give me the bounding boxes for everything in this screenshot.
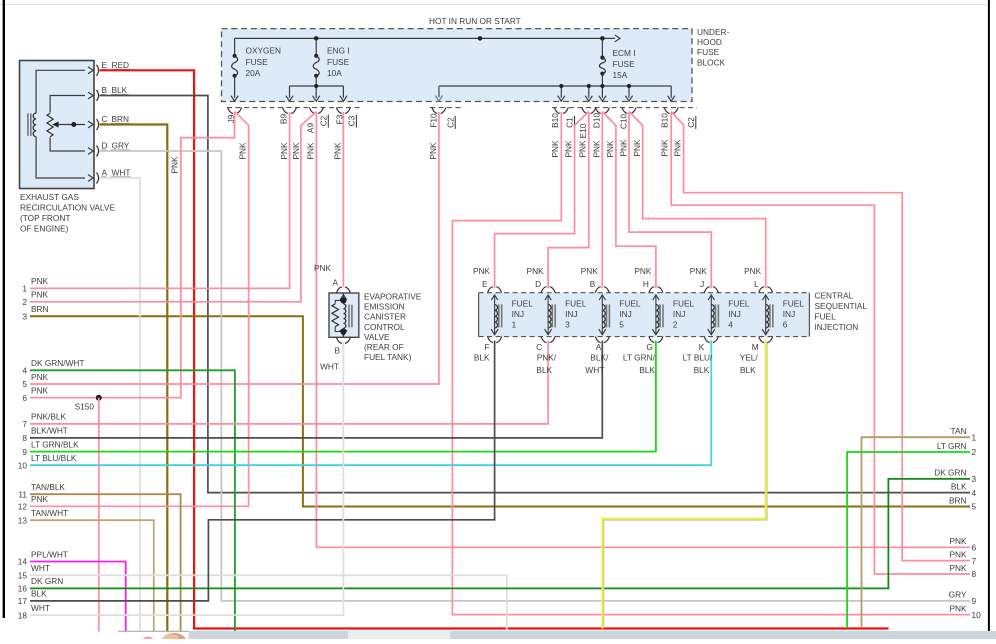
svg-text:PNK: PNK — [428, 142, 438, 160]
svg-text:2: 2 — [972, 447, 977, 457]
svg-text:F: F — [485, 342, 490, 352]
svg-text:VALVE: VALVE — [364, 332, 390, 342]
wire 10 LT BLU/BLK to injector pin K — [30, 341, 711, 466]
svg-text:PNK: PNK — [591, 140, 601, 158]
svg-text:8: 8 — [972, 569, 977, 579]
svg-text:3: 3 — [565, 320, 570, 330]
svg-text:INJ: INJ — [565, 309, 577, 319]
svg-text:LT GRN/: LT GRN/ — [623, 353, 656, 363]
EVAP connector A — [336, 287, 350, 293]
svg-text:(TOP FRONT: (TOP FRONT — [20, 213, 70, 223]
wire 11 TAN/BLK — [30, 494, 181, 631]
fuel injector block box — [479, 293, 810, 337]
svg-text:PNK: PNK — [170, 156, 180, 174]
wire EGR A WHT — [100, 178, 140, 632]
fuse ECM I FUSE 15A — [601, 38, 603, 57]
fuel injector 5 — [595, 287, 609, 293]
svg-text:INJ: INJ — [783, 309, 795, 319]
svg-text:A: A — [596, 342, 602, 352]
wire 3 BRN to right wire 5 — [30, 316, 970, 506]
svg-text:WHT: WHT — [585, 365, 604, 375]
svg-text:11: 11 — [18, 489, 27, 499]
EGR potentiometer resistor — [47, 113, 53, 137]
svg-text:BLK: BLK — [112, 85, 128, 95]
node S150 — [96, 395, 102, 401]
svg-text:BRN: BRN — [949, 495, 967, 505]
svg-text:EXHAUST GAS: EXHAUST GAS — [20, 192, 79, 202]
svg-text:FUEL: FUEL — [512, 299, 534, 309]
svg-text:PNK: PNK — [605, 140, 615, 158]
svg-text:FUEL: FUEL — [783, 299, 805, 309]
page top hairline — [0, 4, 990, 6]
svg-text:B: B — [590, 279, 596, 289]
svg-text:OF ENGINE): OF ENGINE) — [20, 224, 69, 234]
svg-text:SEQUENTIAL: SEQUENTIAL — [815, 301, 868, 311]
svg-text:5: 5 — [22, 379, 27, 389]
svg-text:BLK: BLK — [639, 365, 655, 375]
node engbar-center — [314, 84, 318, 88]
wire B9 PNK to left wire 1 — [30, 112, 290, 288]
svg-text:2: 2 — [673, 320, 678, 330]
svg-text:PNK: PNK — [660, 139, 670, 157]
svg-text:C1: C1 — [565, 117, 575, 128]
svg-text:4: 4 — [972, 488, 977, 498]
svg-text:PNK: PNK — [550, 140, 560, 158]
node ecmbar junctions — [559, 84, 563, 88]
svg-text:4: 4 — [728, 320, 733, 330]
svg-text:3: 3 — [972, 474, 977, 484]
svg-text:A9: A9 — [305, 123, 315, 134]
wire E10 PNK to injector pin E — [495, 112, 589, 289]
svg-text:LT GRN/BLK: LT GRN/BLK — [31, 439, 79, 449]
svg-text:15A: 15A — [613, 70, 628, 80]
svg-text:C2: C2 — [686, 117, 696, 128]
svg-text:K: K — [699, 342, 705, 352]
svg-text:PNK: PNK — [949, 536, 967, 546]
svg-text:PNK: PNK — [314, 263, 332, 273]
page right border — [988, 0, 990, 631]
svg-text:GRY: GRY — [949, 590, 967, 600]
svg-text:HOOD: HOOD — [697, 37, 722, 47]
wire 4 DK GRN/WHT — [30, 370, 235, 631]
svg-text:20A: 20A — [246, 68, 261, 78]
svg-text:1: 1 — [972, 432, 977, 442]
svg-text:PNK: PNK — [31, 494, 49, 504]
svg-text:18: 18 — [18, 610, 28, 620]
svg-text:OXYGEN: OXYGEN — [246, 46, 282, 56]
svg-text:5: 5 — [972, 502, 977, 512]
fuel injector 4 — [704, 287, 718, 293]
svg-text:FUEL: FUEL — [565, 299, 587, 309]
wire 9 LT GRN/BLK to injector pin G — [30, 341, 656, 452]
svg-text:B10: B10 — [660, 113, 670, 128]
svg-text:PNK: PNK — [632, 139, 642, 157]
wire C10 PNK to injector pin J — [629, 112, 711, 288]
connector pin at x=316.4 — [309, 107, 323, 113]
svg-text:BLK/WHT: BLK/WHT — [31, 426, 68, 436]
svg-text:9: 9 — [972, 596, 977, 606]
svg-text:BLOCK: BLOCK — [697, 57, 726, 67]
svg-text:CONTROL: CONTROL — [364, 322, 405, 332]
EGR pin D arrow — [88, 148, 93, 155]
svg-text:C: C — [536, 342, 542, 352]
svg-text:BRN: BRN — [112, 114, 130, 124]
svg-text:2: 2 — [22, 297, 27, 307]
svg-text:H: H — [643, 279, 649, 289]
fuse block connector C2b row dashed — [430, 107, 463, 109]
wire B10 PNK to right wire 7 — [671, 112, 970, 561]
svg-text:ECM I: ECM I — [613, 48, 636, 58]
svg-text:FUEL: FUEL — [673, 299, 695, 309]
wire injector M YEL/BLK — [602, 341, 765, 629]
fuel injector 1 — [488, 287, 502, 293]
svg-text:17: 17 — [18, 596, 28, 606]
svg-text:8: 8 — [22, 433, 27, 443]
svg-text:PNK: PNK — [332, 142, 342, 160]
svg-text:E10: E10 — [578, 123, 588, 138]
svg-text:PNK: PNK — [744, 266, 762, 276]
svg-text:FUSE: FUSE — [327, 57, 350, 67]
svg-text:PNK/BLK: PNK/BLK — [31, 412, 67, 422]
svg-text:PNK: PNK — [31, 290, 49, 300]
svg-text:BLK: BLK — [536, 365, 552, 375]
connector pin at x=289.5 — [283, 107, 297, 113]
EGR coil — [33, 113, 36, 137]
wire D10 PNK to injector pin H — [602, 112, 656, 289]
svg-text:13: 13 — [18, 515, 28, 525]
EVAP connector B — [336, 337, 350, 343]
svg-text:PNK: PNK — [31, 386, 49, 396]
wire S150 branch down PNK — [98, 398, 100, 632]
svg-text:1: 1 — [512, 320, 517, 330]
svg-text:PNK: PNK — [306, 142, 316, 160]
EGR internal wiring — [36, 70, 85, 113]
svg-text:FUEL: FUEL — [619, 299, 641, 309]
wire 17 BLK to injector pin F — [30, 341, 495, 601]
EGR pin A arrow — [88, 175, 93, 182]
wire J9 PNK to left wire 12 — [30, 112, 249, 507]
svg-text:E: E — [102, 60, 108, 70]
svg-text:CANISTER: CANISTER — [364, 312, 406, 322]
right wire 2 LT GRN — [847, 452, 970, 628]
wire 18 WHT to EVAP pin B — [30, 342, 343, 616]
node EVAP bottom — [340, 328, 346, 334]
svg-text:10: 10 — [972, 610, 982, 620]
svg-text:RED: RED — [112, 60, 130, 70]
svg-text:B: B — [102, 85, 108, 95]
svg-text:BLK: BLK — [474, 353, 490, 363]
svg-text:TAN/WHT: TAN/WHT — [31, 508, 68, 518]
node bus-feed — [478, 36, 483, 41]
svg-text:BLK: BLK — [694, 365, 710, 375]
EVAP internal — [342, 293, 344, 304]
svg-text:LT BLU/BLK: LT BLU/BLK — [31, 453, 77, 463]
svg-text:6: 6 — [22, 393, 27, 403]
svg-text:BLK: BLK — [31, 589, 47, 599]
svg-text:M: M — [752, 342, 759, 352]
svg-text:DK GRN: DK GRN — [31, 576, 63, 586]
wire 16 DK GRN to right wire 3 — [30, 479, 970, 589]
wire F3 PNK to EVAP pin A — [342, 112, 344, 287]
svg-text:L: L — [754, 279, 759, 289]
page left border — [3, 0, 5, 618]
svg-text:E: E — [482, 279, 488, 289]
svg-text:PNK: PNK — [564, 140, 574, 158]
svg-text:15: 15 — [18, 571, 28, 581]
node EGR wiper junction — [71, 122, 76, 127]
svg-text:C2: C2 — [318, 115, 328, 126]
ecm fuse distribution bar — [439, 85, 671, 87]
svg-text:B10: B10 — [550, 113, 560, 128]
svg-text:D: D — [535, 279, 541, 289]
svg-text:12: 12 — [18, 502, 28, 512]
svg-text:PNK: PNK — [31, 372, 49, 382]
connector pin at x=343.4 — [336, 107, 350, 113]
EGR valve box — [20, 61, 95, 189]
svg-text:PNK: PNK — [578, 140, 588, 158]
svg-text:C3: C3 — [347, 115, 357, 126]
svg-text:PNK: PNK — [473, 266, 491, 276]
wire B10 PNK to right wire 10 — [452, 112, 970, 615]
svg-text:WHT: WHT — [112, 167, 131, 177]
svg-text:EVAPORATIVE: EVAPORATIVE — [364, 292, 422, 302]
wire J9 PNK to S150 (left wire 6) — [30, 112, 235, 398]
svg-text:5: 5 — [619, 320, 624, 330]
svg-text:10: 10 — [18, 460, 28, 470]
svg-text:7: 7 — [22, 419, 27, 429]
svg-text:ENG I: ENG I — [327, 46, 350, 56]
svg-text:D10: D10 — [591, 113, 601, 129]
svg-text:BRN: BRN — [31, 304, 49, 314]
fuel injector 6 — [759, 287, 773, 293]
svg-text:TAN/BLK: TAN/BLK — [31, 482, 65, 492]
svg-text:7: 7 — [972, 556, 977, 566]
svg-text:RECIRCULATION VALVE: RECIRCULATION VALVE — [20, 203, 115, 213]
svg-text:3: 3 — [22, 311, 27, 321]
connector pin at x=629 — [622, 107, 636, 113]
svg-text:B: B — [334, 346, 340, 356]
svg-text:6: 6 — [972, 543, 977, 553]
svg-text:J: J — [700, 279, 704, 289]
svg-text:GRY: GRY — [112, 141, 130, 151]
svg-text:C10: C10 — [618, 114, 628, 130]
svg-text:INJ: INJ — [728, 309, 740, 319]
bottom photo thumbnail — [143, 637, 154, 644]
wire D10 PNK to injector pin B — [601, 112, 603, 288]
svg-text:CENTRAL: CENTRAL — [815, 291, 854, 301]
wire 14 PPL/WHT — [30, 562, 126, 632]
svg-text:PNK: PNK — [31, 276, 49, 286]
wire B10 PNK to right wire 8 — [671, 112, 970, 574]
svg-text:UNDER-: UNDER- — [697, 27, 730, 37]
EGR pin C arrow — [88, 121, 93, 128]
svg-text:A: A — [332, 278, 338, 288]
connector pin at x=602.4 — [595, 107, 609, 113]
connector pin at x=561.3 — [554, 107, 568, 113]
connector pin at x=234.6 — [228, 107, 242, 113]
wire EGR E RED — [100, 70, 889, 628]
svg-text:INJ: INJ — [673, 309, 685, 319]
wire EGR B BLK to right wire 4 — [100, 96, 971, 493]
svg-text:1: 1 — [22, 284, 27, 294]
svg-text:HOT IN RUN OR START: HOT IN RUN OR START — [429, 16, 521, 26]
wire 15 WHT — [30, 575, 507, 631]
svg-text:INJECTION: INJECTION — [815, 322, 859, 332]
wire EGR D GRY to right wire 9 — [100, 151, 971, 601]
right wire 1 TAN — [862, 437, 971, 628]
EGR wiper wire — [56, 124, 85, 126]
bottom toolbar bar — [189, 631, 996, 639]
svg-text:TAN: TAN — [951, 426, 967, 436]
EVAP valve box — [329, 293, 359, 337]
svg-text:PNK: PNK — [279, 142, 289, 160]
svg-text:YEL/: YEL/ — [740, 353, 759, 363]
svg-text:A: A — [102, 167, 108, 177]
svg-text:D: D — [102, 141, 108, 151]
svg-text:WHT: WHT — [31, 563, 50, 573]
svg-text:PNK: PNK — [949, 549, 967, 559]
fuse OXYGEN FUSE 20A — [234, 38, 236, 55]
svg-text:PNK: PNK — [291, 142, 301, 160]
svg-text:PNK: PNK — [690, 266, 708, 276]
node bus-ecmfuse — [600, 36, 605, 41]
svg-text:4: 4 — [22, 366, 27, 376]
EGR pin B arrow — [88, 92, 93, 99]
wire injector M YEL/BLK shadow — [604, 342, 767, 629]
fuse block connector C2 row dashed — [227, 107, 361, 109]
svg-text:INJ: INJ — [619, 309, 631, 319]
underhood fuse block box — [222, 29, 693, 102]
connector pin at x=588.8 — [582, 107, 596, 113]
EGR pin E arrow — [88, 67, 93, 74]
svg-text:PNK: PNK — [949, 563, 967, 573]
svg-text:LT BLU/: LT BLU/ — [683, 353, 713, 363]
wire A9 PNK to right wire 6 — [316, 112, 970, 547]
svg-text:PPL/WHT: PPL/WHT — [31, 549, 68, 559]
svg-text:PNK: PNK — [673, 139, 683, 157]
svg-text:WHT: WHT — [31, 603, 50, 613]
svg-text:BLK/: BLK/ — [590, 353, 609, 363]
svg-text:FUEL: FUEL — [728, 299, 750, 309]
svg-text:C2: C2 — [445, 117, 455, 128]
wire C10 PNK to injector pin L — [629, 112, 766, 289]
eng fuse distribution bar — [290, 85, 344, 87]
wire 7 PNK/BLK to injector pin C — [30, 341, 548, 424]
svg-text:PNK: PNK — [619, 139, 629, 157]
svg-text:PNK/: PNK/ — [537, 353, 557, 363]
svg-text:FUSE: FUSE — [613, 59, 636, 69]
svg-text:C: C — [102, 114, 108, 124]
svg-text:PNK: PNK — [581, 266, 599, 276]
wire 8 BLK/WHT to injector pin A — [30, 341, 602, 438]
fuel injector 3 — [541, 287, 555, 293]
svg-text:BLK: BLK — [951, 481, 967, 491]
connector pin at x=438.9 — [432, 107, 446, 113]
fuse block connector C1 row dashed — [552, 107, 697, 109]
svg-text:FUSE: FUSE — [246, 57, 269, 67]
fuel injector 2 — [649, 287, 663, 293]
svg-text:G: G — [646, 342, 652, 352]
svg-text:PNK: PNK — [527, 266, 545, 276]
svg-text:DK GRN/WHT: DK GRN/WHT — [31, 358, 84, 368]
wire E10 PNK to injector pin D — [548, 112, 589, 288]
bottom thumbnail frame edge — [118, 630, 189, 632]
wire 13 TAN/WHT — [30, 520, 154, 631]
svg-text:LT GRN: LT GRN — [937, 441, 967, 451]
svg-text:14: 14 — [18, 557, 28, 567]
svg-text:WHT: WHT — [320, 362, 339, 372]
wire F10 PNK to left wire 5 — [30, 112, 439, 384]
svg-text:FUEL: FUEL — [815, 312, 837, 322]
svg-text:(REAR OF: (REAR OF — [364, 342, 404, 352]
svg-text:INJ: INJ — [512, 309, 524, 319]
svg-text:EMISSION: EMISSION — [364, 302, 405, 312]
svg-text:DK GRN: DK GRN — [934, 468, 966, 478]
svg-text:9: 9 — [22, 447, 27, 457]
svg-text:10A: 10A — [327, 68, 342, 78]
wire EGR C BRN — [100, 125, 168, 632]
svg-text:F10: F10 — [428, 113, 438, 128]
svg-text:PNK: PNK — [949, 603, 967, 613]
bus wire hot in run — [235, 37, 615, 39]
node EVAP top — [340, 297, 346, 303]
svg-text:S150: S150 — [75, 402, 95, 412]
connector pin at x=671.2 — [664, 107, 678, 113]
svg-text:PNK: PNK — [238, 142, 248, 160]
fuse ENG I FUSE 10A — [315, 38, 317, 55]
svg-text:6: 6 — [783, 320, 788, 330]
svg-text:FUSE: FUSE — [697, 47, 720, 57]
svg-text:FUEL TANK): FUEL TANK) — [364, 352, 412, 362]
wire A9 PNK to left wire 2 — [30, 112, 316, 302]
node bus-engfuse — [314, 36, 319, 41]
svg-text:BLK: BLK — [740, 365, 756, 375]
svg-text:B9: B9 — [279, 114, 289, 125]
svg-text:PNK: PNK — [634, 266, 652, 276]
svg-text:16: 16 — [18, 584, 28, 594]
